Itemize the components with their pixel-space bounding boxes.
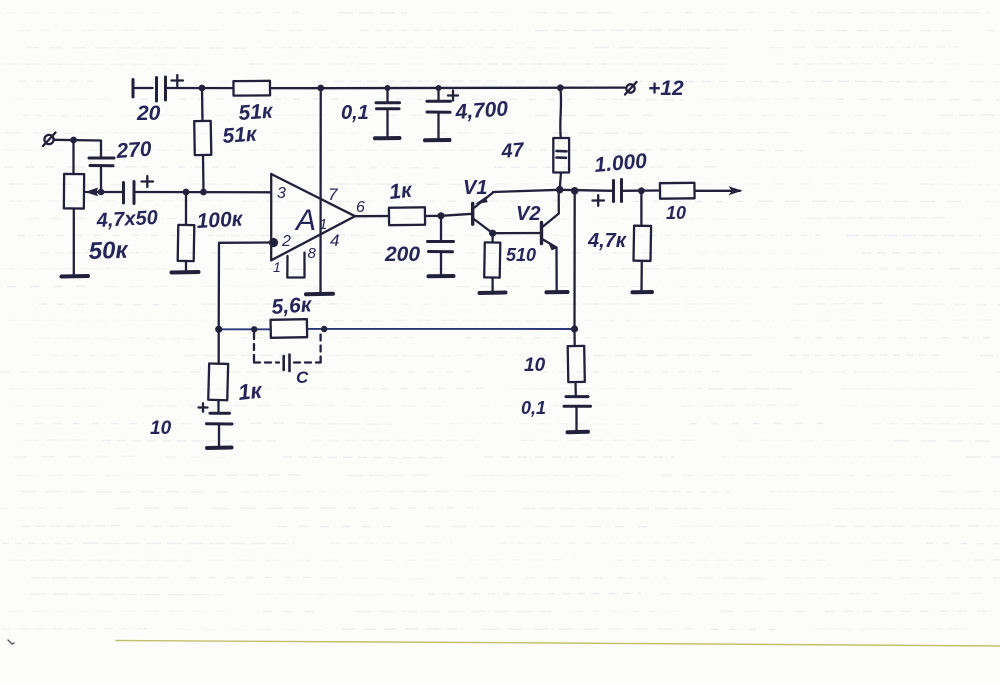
inverting input dot (pin 2) (269, 238, 278, 247)
capacitor 4,7x50 (124, 182, 135, 204)
svg-text:3: 3 (277, 185, 286, 202)
svg-text:4,7х50: 4,7х50 (95, 207, 158, 232)
wire junction to cap 4,7x50 (101, 191, 124, 193)
svg-text:V1: V1 (463, 177, 487, 199)
svg-text:C: C (296, 368, 309, 387)
svg-text:100к: 100к (196, 208, 244, 233)
capacitor 1.000 (614, 180, 622, 202)
node 4,7k top (638, 187, 645, 194)
node cap 4,700/rail (436, 85, 442, 91)
resistor 4,7k (633, 191, 651, 292)
node feedback right (571, 325, 578, 332)
svg-text:51к: 51к (238, 100, 275, 125)
capacitor 20 (133, 77, 166, 101)
node feedback tap (571, 187, 579, 195)
resistor 51k horizontal (233, 81, 270, 96)
svg-text:47: 47 (500, 139, 526, 163)
plus sign (4,7x50) (142, 176, 154, 187)
svg-text:1: 1 (273, 259, 281, 275)
plus sign (20) (172, 75, 184, 86)
resistor 10 feedback (568, 329, 585, 396)
capacitor 4,700 (427, 88, 451, 140)
capacitor 0,1 feedback (564, 397, 591, 432)
pin 7/4 supply wire through op-amp (319, 88, 322, 294)
ground (op-amp pin 4) (306, 292, 333, 297)
svg-text:1.000: 1.000 (593, 149, 648, 177)
node 47 bottom / V2 collector (556, 186, 564, 194)
input terminal (43, 133, 56, 147)
resistor 10 output (660, 183, 695, 199)
svg-text:2: 2 (281, 233, 291, 250)
wire 1k to V1 base (425, 214, 473, 216)
node 51k bottom (200, 189, 207, 196)
ground (cap 0,1 feedback) (568, 430, 589, 434)
svg-text:20: 20 (136, 102, 161, 125)
resistor 1k feedback (208, 329, 228, 412)
svg-text:8: 8 (308, 245, 317, 262)
svg-text:10: 10 (150, 418, 172, 439)
wire node to cap 1.000 (560, 190, 613, 191)
svg-text:4: 4 (330, 231, 339, 250)
ground (cap 4,700) (425, 138, 450, 142)
svg-text:50к: 50к (88, 237, 130, 265)
capacitor 10 feedback (207, 413, 233, 447)
svg-text:0,1: 0,1 (521, 398, 546, 418)
output wire and arrow (695, 186, 743, 195)
svg-text:7: 7 (328, 185, 338, 204)
svg-text:10: 10 (666, 203, 686, 223)
svg-text:270: 270 (115, 138, 153, 163)
potentiometer wiper arrow (85, 188, 101, 197)
op-amp A1 triangle (271, 174, 355, 260)
plus sign (10 cap) (199, 403, 208, 412)
capacitor C (dashed) (254, 333, 321, 371)
svg-text:51к: 51к (222, 123, 259, 148)
capacitor 200 (428, 216, 454, 276)
ground (V2 emitter) (547, 290, 568, 294)
node cap 0,1/rail (385, 85, 391, 91)
wire op-amp output (355, 215, 389, 217)
ground (100k) (172, 270, 199, 275)
resistor 47 (553, 88, 569, 190)
node input/pot junction (70, 137, 77, 144)
resistor 510 (484, 233, 500, 292)
svg-text:6: 6 (356, 199, 365, 216)
node V1 collector / 510 / V2 base (489, 230, 496, 237)
wire 510 node to V2 base (493, 232, 542, 234)
speck bottom-left (8, 640, 14, 644)
ground (pot 50k) (62, 274, 89, 279)
feedback wire (long) (219, 328, 271, 330)
wire pin 2 to feedback node (219, 243, 271, 330)
ground (cap 200) (429, 274, 454, 278)
svg-text:200: 200 (384, 243, 420, 266)
+12 rail wire (166, 86, 625, 89)
svg-text:1к: 1к (237, 377, 265, 405)
node 100k top (183, 189, 190, 196)
svg-text:10: 10 (524, 355, 546, 376)
node cap270/input wire (98, 189, 105, 196)
ground (cap 10) (207, 446, 232, 451)
node feedback left (215, 326, 222, 333)
svg-text:0,1: 0,1 (341, 102, 369, 124)
capacitor 20 terminal bar (132, 80, 135, 98)
node pin7/rail (317, 85, 324, 92)
potentiometer 50k body (64, 140, 84, 276)
resistor 100k (178, 192, 195, 272)
transistor V1 (473, 193, 493, 234)
wire cap to op-amp pin 3 (134, 191, 271, 194)
bottom margin line (116, 641, 1000, 647)
svg-text:V2: V2 (516, 203, 540, 225)
plus sign (1.000) (593, 195, 605, 206)
node 51k/rail (199, 85, 206, 92)
svg-text:+12: +12 (648, 77, 684, 100)
capacitor 270 (89, 158, 114, 192)
resistor 1k (389, 207, 425, 225)
ground (510) (480, 291, 506, 296)
wire V1 emitter to node (493, 190, 560, 192)
svg-text:1к: 1к (388, 179, 414, 204)
node 47/rail (557, 84, 564, 91)
jumper pins 1-8 (287, 253, 304, 278)
svg-text:A: A (294, 204, 316, 237)
resistor 51k vertical (194, 88, 211, 192)
node 5,6k left (251, 326, 257, 332)
node 5,6k right (321, 326, 327, 332)
svg-text:510: 510 (506, 245, 536, 265)
ground (cap 0,1) (375, 136, 400, 140)
+12 terminal (625, 82, 637, 95)
resistor 5,6k (271, 319, 308, 338)
wire feedback drop (573, 191, 576, 329)
svg-text:4,700: 4,700 (454, 97, 509, 124)
ground (4,7k) (633, 290, 653, 294)
svg-text:4,7к: 4,7к (587, 230, 627, 252)
capacitor 0,1 (376, 88, 400, 138)
wire cap 1.000 to resistor 10 (622, 189, 661, 192)
svg-text:5,6к: 5,6к (271, 293, 314, 319)
wire input to cap270 corner (54, 140, 102, 158)
node cap 200 (437, 212, 444, 219)
transistor V2 (542, 190, 559, 292)
plus sign (4,700) (448, 91, 458, 101)
